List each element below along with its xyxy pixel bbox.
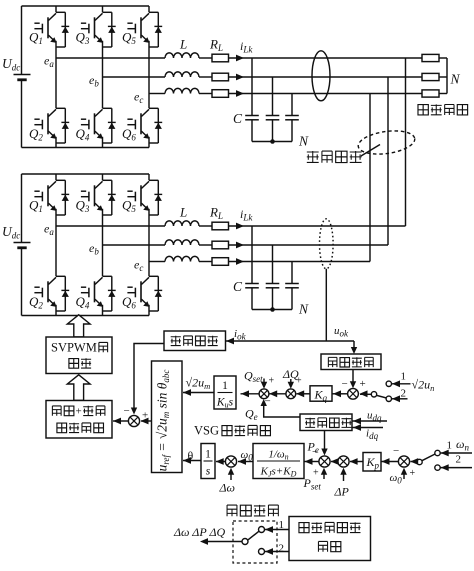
svg-text:−: − — [342, 378, 348, 390]
svg-text:−: − — [393, 445, 399, 457]
svg-text:1: 1 — [447, 440, 453, 452]
svg-text:1: 1 — [222, 380, 228, 392]
svg-text:+: + — [360, 378, 366, 390]
svg-text:VSG: VSG — [194, 424, 219, 438]
svg-text:Δω ΔP ΔQ: Δω ΔP ΔQ — [173, 525, 225, 539]
svg-text:N: N — [298, 302, 309, 317]
svg-text:+: + — [313, 468, 319, 479]
svg-text:1: 1 — [401, 371, 407, 383]
svg-text:N: N — [298, 134, 309, 149]
svg-text:−: − — [265, 396, 271, 408]
svg-text:C: C — [233, 279, 243, 294]
svg-text:+: + — [269, 376, 275, 387]
svg-text:s: s — [206, 466, 211, 478]
svg-text:−: − — [124, 405, 130, 417]
svg-text:SVPWM: SVPWM — [51, 341, 97, 355]
svg-text:2: 2 — [279, 543, 285, 555]
svg-text:−: − — [312, 446, 318, 458]
svg-text:θ: θ — [188, 449, 194, 463]
svg-text:L: L — [179, 37, 187, 52]
svg-text:+: + — [76, 406, 82, 418]
svg-text:2: 2 — [456, 454, 462, 466]
svg-text:+: + — [410, 468, 416, 479]
svg-text:C: C — [233, 111, 243, 126]
svg-text:+: + — [296, 376, 302, 387]
svg-text:ΔP: ΔP — [334, 485, 350, 499]
svg-text:N: N — [450, 72, 461, 87]
svg-text:L: L — [179, 205, 187, 220]
svg-text:1: 1 — [205, 449, 211, 461]
svg-text:2: 2 — [401, 388, 407, 400]
svg-text:Δω: Δω — [219, 481, 236, 495]
